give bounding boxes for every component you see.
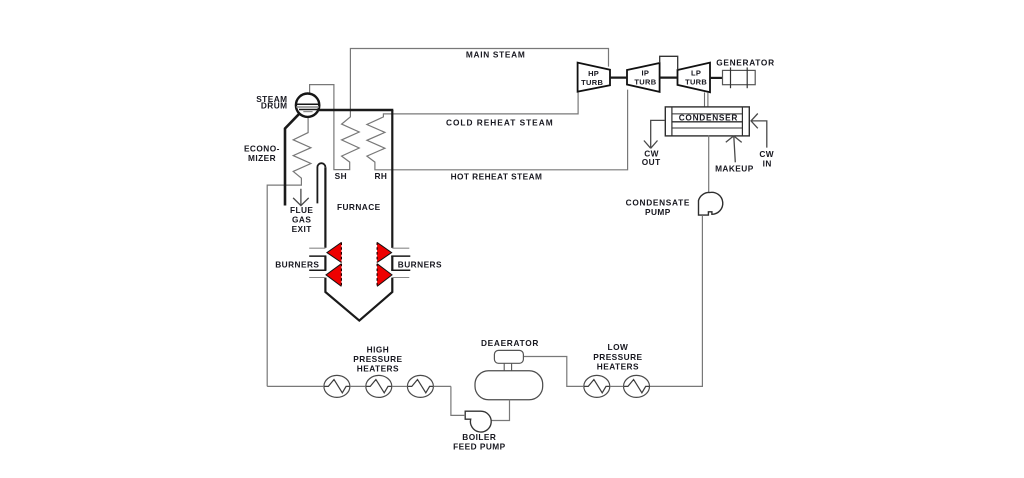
condenser E1 <box>665 107 749 136</box>
LP exhaust double pipe to condenser <box>704 92 706 107</box>
svg-text:MAKEUP: MAKEUP <box>715 163 754 173</box>
condensate pipe from pump down to LP heaters <box>650 215 703 386</box>
boiler feed pump P2 <box>465 411 491 432</box>
economizer gas duct wall (rounded top) <box>317 163 325 203</box>
deaerator tank <box>475 371 543 400</box>
wire LP heater 1 to deaerator head <box>523 357 583 387</box>
svg-text:OUT: OUT <box>642 157 661 167</box>
svg-text:TURB: TURB <box>685 78 707 87</box>
turbine IP U2 <box>627 63 660 92</box>
wire deaerator bottom to boiler feed pump <box>491 400 509 421</box>
svg-text:GENERATOR: GENERATOR <box>716 58 775 68</box>
downcomer thick pipe from steam drum <box>285 114 299 206</box>
svg-text:HEATERS: HEATERS <box>357 364 399 374</box>
HP heater 3 <box>407 375 433 397</box>
svg-text:SH: SH <box>335 171 347 181</box>
wire cold reheat from HP turbine to RH coil, RH zigzag, hot reheat to IP turbine <box>367 90 628 170</box>
makeup arrow into condenser <box>726 136 742 162</box>
svg-text:TURB: TURB <box>581 78 603 87</box>
crossover pipe IP to LP <box>660 56 678 70</box>
generator G1 <box>723 70 756 84</box>
svg-text:PUMP: PUMP <box>645 207 671 217</box>
svg-text:LOW: LOW <box>608 342 629 352</box>
LP heater 2 <box>624 375 650 397</box>
svg-text:HEATERS: HEATERS <box>597 361 639 371</box>
svg-text:MIZER: MIZER <box>248 153 276 163</box>
turbine HP U1 <box>578 63 610 92</box>
svg-text:TURB: TURB <box>634 78 656 87</box>
burner flame lower-right (red) <box>377 264 392 287</box>
svg-text:FURNACE: FURNACE <box>337 202 381 212</box>
burner flame lower-left (red) <box>326 264 341 287</box>
svg-text:FLUE: FLUE <box>290 205 313 215</box>
right burner stub lines <box>392 247 409 249</box>
svg-text:MAIN STEAM: MAIN STEAM <box>466 50 526 60</box>
burner flame upper-left (red) <box>327 242 342 262</box>
feedwater line segments along bottom <box>267 385 324 387</box>
svg-text:HOT REHEAT STEAM: HOT REHEAT STEAM <box>451 171 543 181</box>
svg-text:FEED PUMP: FEED PUMP <box>453 442 505 452</box>
shaft HP-IP <box>610 76 627 78</box>
svg-text:IP: IP <box>642 68 650 77</box>
wire between LP heaters <box>610 385 624 387</box>
svg-text:GAS: GAS <box>292 215 311 225</box>
svg-text:COLD REHEAT STEAM: COLD REHEAT STEAM <box>446 118 554 128</box>
shaft LP-generator <box>710 77 723 79</box>
svg-text:BURNERS: BURNERS <box>398 260 442 270</box>
svg-text:RH: RH <box>374 171 387 181</box>
condensate drain pipe to pump <box>708 135 710 192</box>
burner flame upper-right (red) <box>377 242 392 262</box>
LP heater 1 <box>584 375 610 397</box>
steam drum circle <box>296 94 319 117</box>
svg-text:DRUM: DRUM <box>261 101 288 111</box>
svg-text:IN: IN <box>763 158 772 168</box>
furnace right wall with burner openings and hopper <box>325 110 392 321</box>
condensate pump P1 <box>699 192 723 215</box>
svg-text:HP: HP <box>588 69 599 78</box>
turbine LP U3 <box>678 63 711 93</box>
HP heater 2 <box>366 375 392 397</box>
thick drum outlet pipe to furnace wall <box>317 109 393 112</box>
left burner stub lines <box>309 247 325 249</box>
HP heater 1 <box>324 375 350 397</box>
svg-text:PRESSURE: PRESSURE <box>593 352 642 362</box>
svg-text:LP: LP <box>691 68 701 77</box>
steam drum water level lines <box>296 103 319 105</box>
wire main steam loop: drum top to superheater, SH zigzag, riser and main steam line to HP turbine <box>310 49 609 170</box>
svg-text:EXIT: EXIT <box>292 224 312 234</box>
deaerator head <box>494 350 523 363</box>
deaerator neck <box>503 363 505 371</box>
svg-text:CONDENSER: CONDENSER <box>679 113 738 123</box>
shaft IP-LP <box>660 76 678 78</box>
svg-text:BURNERS: BURNERS <box>275 260 319 270</box>
svg-text:DEAERATOR: DEAERATOR <box>481 338 539 348</box>
wire economizer feed: drum bottom, economizer zigzag, bottom header, left feedwater riser down <box>267 117 311 387</box>
CW OUT pipe and arrow <box>644 120 665 148</box>
wire BFP inlet from HP heater line <box>451 386 465 415</box>
CW IN pipe and arrow <box>751 114 767 148</box>
flue gas exit arrow <box>293 189 309 206</box>
